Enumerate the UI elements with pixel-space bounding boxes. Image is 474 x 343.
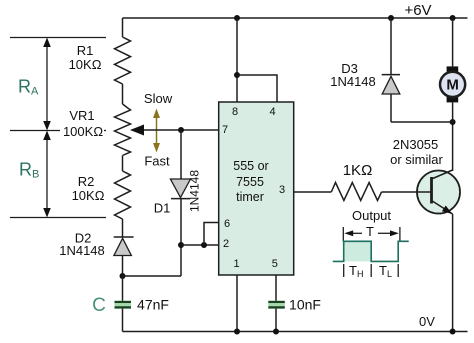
wire pin 1 [236,275,238,332]
transistor Q1 2N3055 [417,170,460,214]
wire pin 3 [294,191,332,193]
wire emitter down [452,214,454,332]
svg-text:10nF: 10nF [289,297,321,313]
label VR1 value 100K [60,124,104,138]
wire D1 to node line [180,199,182,276]
waveform T dimension [343,227,400,242]
RB dimension arrow [43,131,51,218]
svg-text:+6V: +6V [404,2,431,19]
motor M1 [440,66,465,102]
svg-text:C: C [92,295,106,316]
svg-text:M: M [446,77,459,94]
svg-text:1N4148: 1N4148 [188,170,202,212]
junction top rail / D3 [388,15,394,21]
svg-text:10KΩ: 10KΩ [69,57,102,72]
svg-text:R1: R1 [77,43,94,58]
svg-text:1: 1 [233,258,239,270]
svg-text:Output: Output [352,208,391,223]
junction node at C top [120,273,126,279]
svg-text:2: 2 [223,238,229,250]
wire pin 4 [237,75,277,102]
diode D2 [114,237,134,256]
wire D2 to node [122,256,124,277]
svg-text:1N4148: 1N4148 [59,243,105,258]
wire C to 0V rail [122,309,124,332]
junction top rail / pin 8 [234,15,240,21]
junction bottom rail / pin 1 [234,329,240,335]
waveform tick TH left [343,264,345,277]
RA/RB divider line [10,130,106,132]
junction bottom rail / emitter [450,329,456,335]
svg-text:R2: R2 [78,174,95,189]
slow/fast adjustment arrow [153,109,160,153]
svg-text:2N3055: 2N3055 [393,137,439,152]
wire motor top [452,18,454,66]
wire D3 top [390,18,392,75]
svg-text:timer: timer [236,190,264,204]
svg-text:8: 8 [232,106,238,118]
svg-text:5: 5 [272,258,278,270]
wire D3 bottom [390,94,392,122]
waveform tick TL right [397,264,399,277]
wire bottom 0V rail [123,331,468,333]
RA dimension arrow [43,38,51,131]
wire node to C [122,276,124,301]
wire R2 to D2 [122,219,124,237]
svg-text:6: 6 [224,218,230,230]
wire motor bottom [452,102,454,122]
svg-text:1N4148: 1N4148 [330,74,376,89]
resistor R3 1K [331,183,381,201]
wire R3 to base [382,191,418,193]
wire D3 return [391,121,453,123]
svg-text:47nF: 47nF [137,297,169,313]
svg-text:Slow: Slow [144,91,173,106]
capacitor C 47nF [115,301,132,309]
svg-text:4: 4 [269,106,275,118]
svg-text:Fast: Fast [144,154,170,169]
waveform tick TH/TL middle [370,264,372,277]
potentiometer VR1 [115,104,131,156]
wire VR1 to R2 [122,156,124,172]
svg-text:RA: RA [18,77,39,98]
svg-text:D1: D1 [154,201,171,216]
junction top rail / motor [450,15,456,21]
wire pin 8 [236,18,238,102]
wire top +6V rail [123,17,468,19]
wire pin 6 stub [204,223,219,246]
svg-text:or similar: or similar [390,152,443,167]
svg-text:TL: TL [379,263,392,279]
wire wiper to pin 7 [144,129,219,131]
resistor R1 [115,37,131,84]
wire chain top [122,18,124,37]
resistor R2 [115,171,131,219]
svg-text:0V: 0V [419,314,435,329]
junction pin 4 branch [234,72,240,78]
svg-text:RB: RB [19,160,39,181]
VR1 wiper arrow [130,125,144,136]
svg-text:3: 3 [279,184,285,196]
RA bracket top line [10,37,106,39]
wire D1 branch upper [180,130,182,179]
RB bracket bottom line [10,217,106,219]
svg-text:7555: 7555 [236,175,264,189]
svg-text:10KΩ: 10KΩ [72,188,105,203]
junction pin6 stub on pin2 wire [201,242,207,248]
svg-text:T: T [366,224,374,239]
output waveform trace [333,241,409,261]
svg-text:TH: TH [349,263,363,279]
svg-text:1KΩ: 1KΩ [343,162,373,179]
wire collector up [452,122,454,171]
waveform pulse fill [344,241,372,261]
junction bottom rail / C2 [273,329,279,335]
diode D1 [170,179,190,199]
wire R1 to VR1 [122,84,124,104]
svg-text:7: 7 [222,124,228,136]
svg-text:555 or: 555 or [233,159,268,173]
diode D3 [382,75,400,94]
wire pin 5 [275,275,277,301]
svg-text:VR1: VR1 [69,108,94,123]
wire C2 to rail [275,309,277,332]
wire pin 2 [181,244,219,246]
junction wiper/D1 branch [178,127,184,133]
junction collector / D3 / motor [450,119,456,125]
capacitor C2 10nF [268,301,285,309]
wire node to trigger branch [123,275,182,277]
IC U1 555 timer body [219,102,294,275]
junction D1/pin2 wire [178,242,184,248]
svg-text:100KΩ: 100KΩ [63,124,103,139]
